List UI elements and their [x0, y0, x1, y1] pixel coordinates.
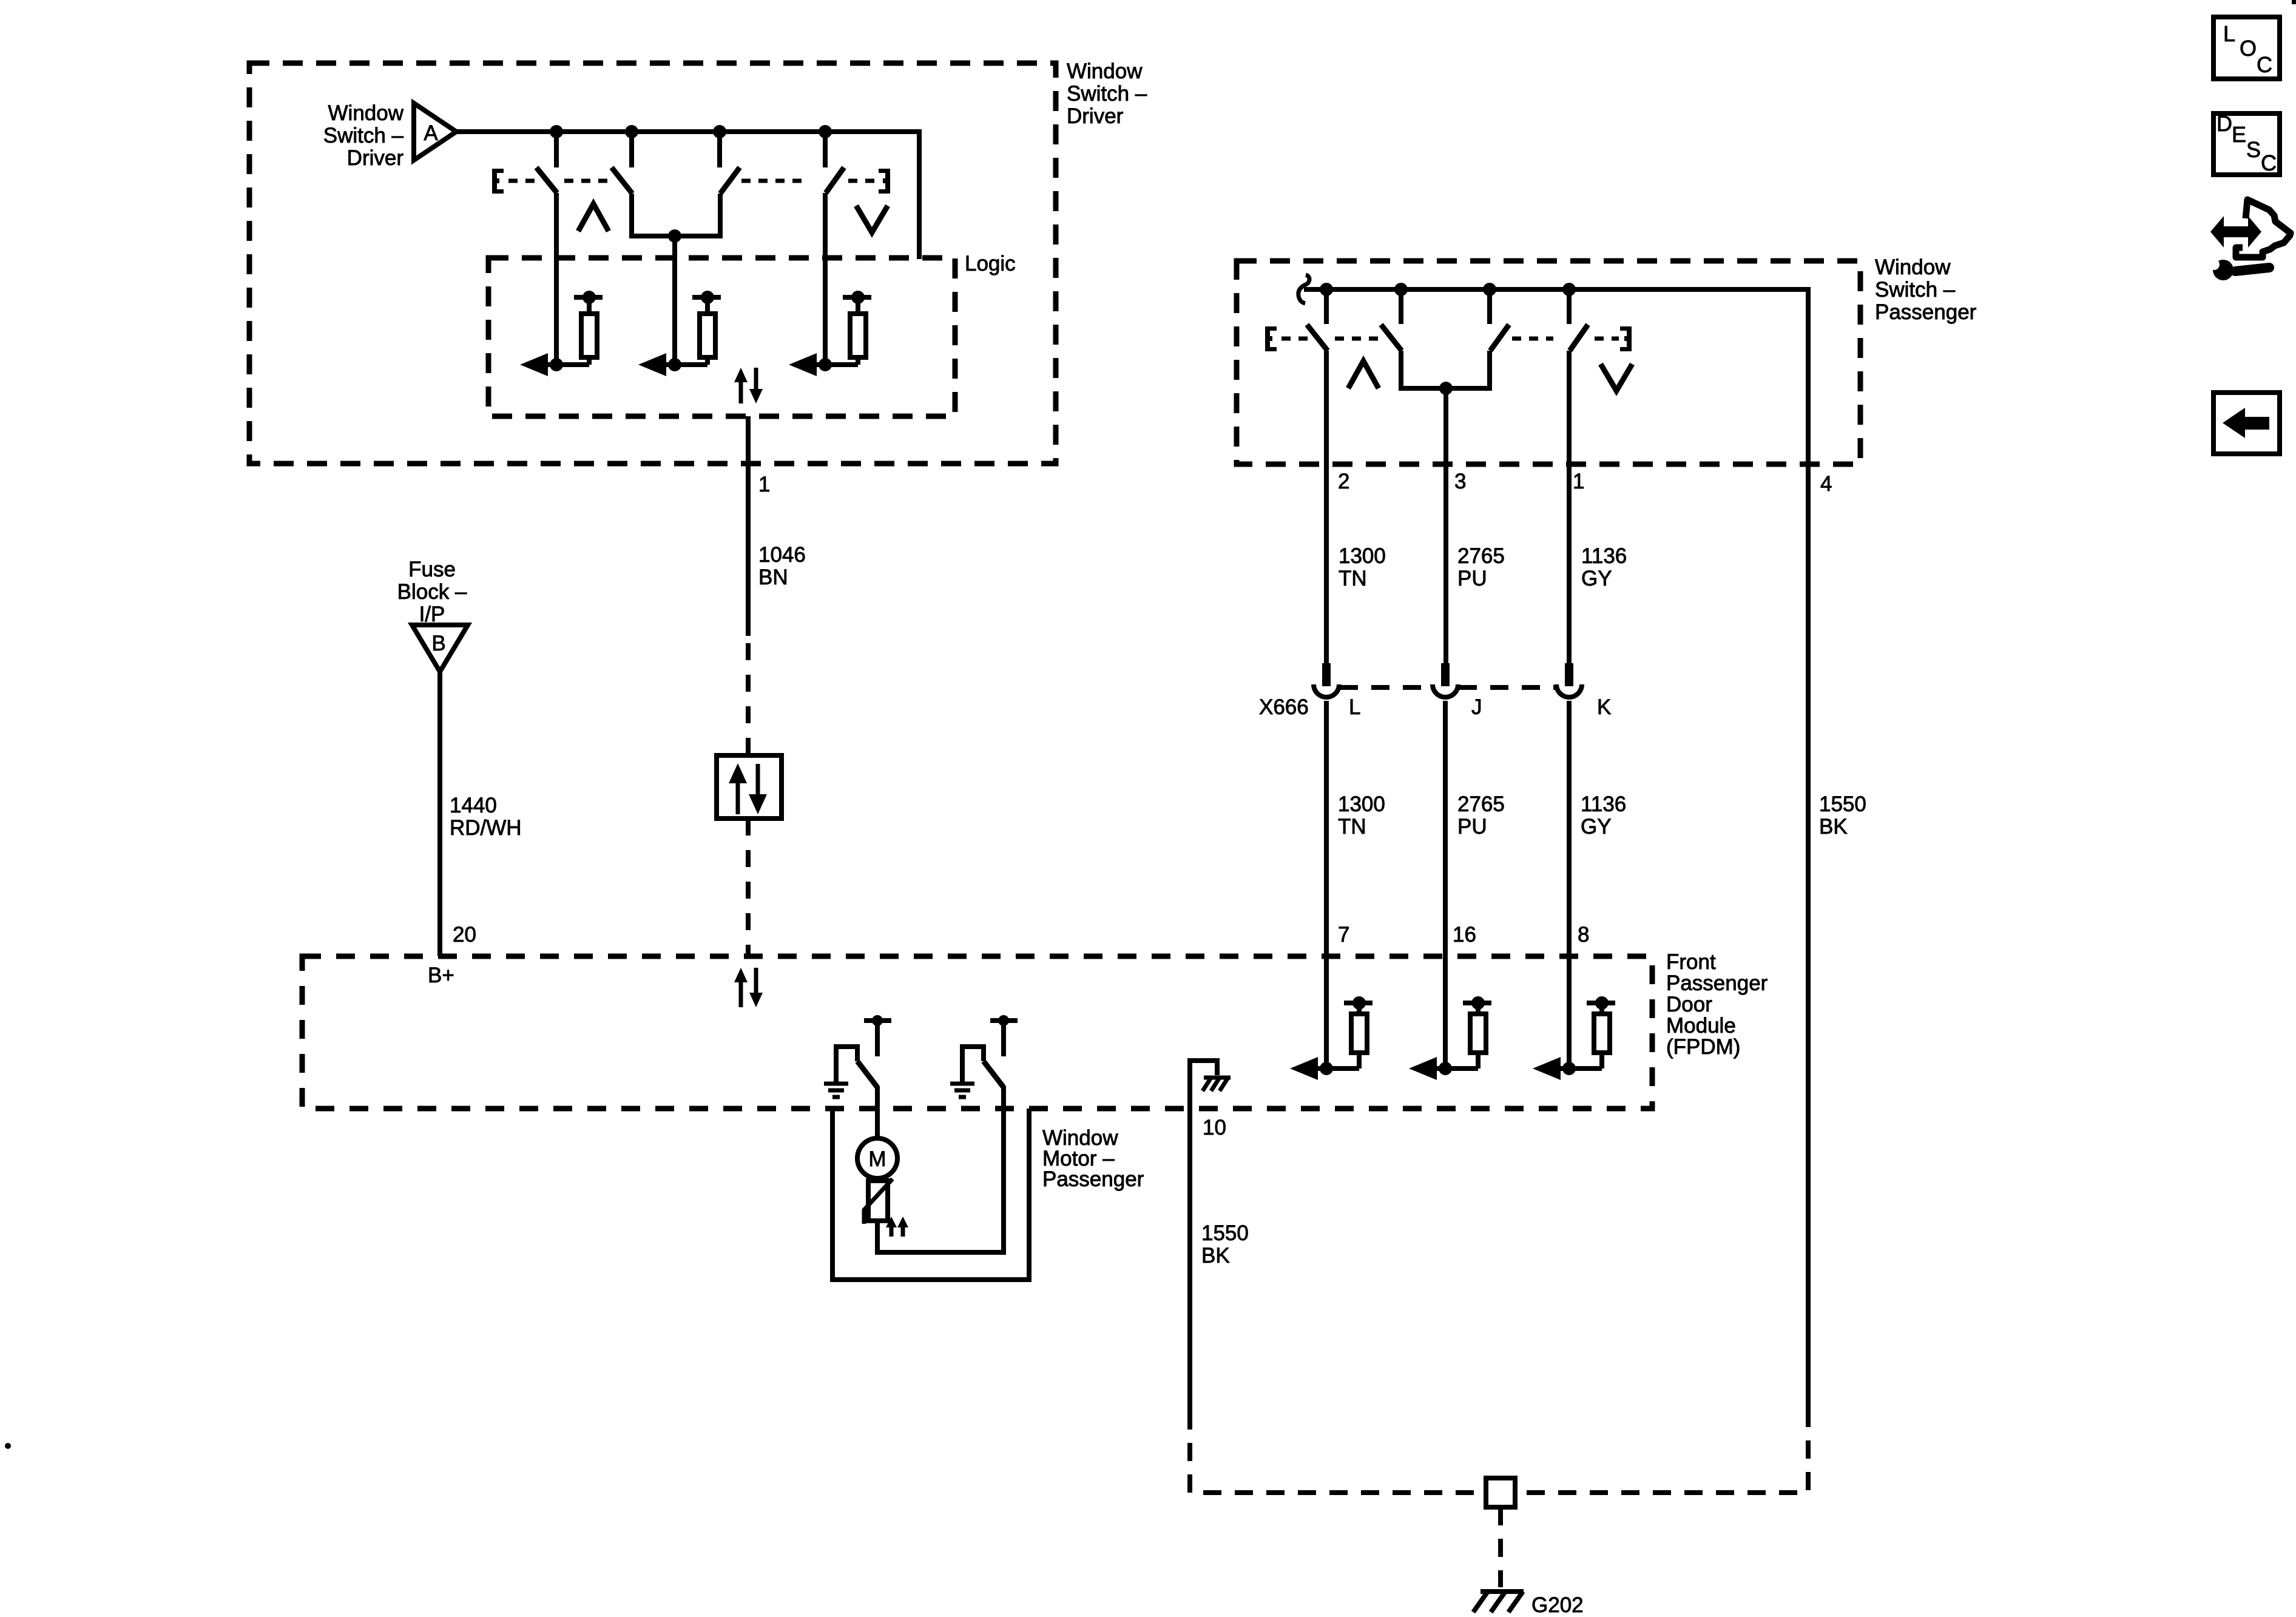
- junction node on bus (passenger switch 4): [1562, 283, 1576, 296]
- wire: passenger switch 4 to pin 1: [1567, 351, 1572, 663]
- wire: passenger switch feed bus: [1304, 289, 1808, 1409]
- junction node on bus (switch 3): [713, 125, 726, 138]
- svg-text:10: 10: [1203, 1116, 1226, 1139]
- svg-text:1550: 1550: [1819, 792, 1866, 816]
- svg-text:Passenger: Passenger: [1666, 971, 1768, 995]
- switch blade S2 (driver center-left): [612, 167, 632, 194]
- svg-text:3: 3: [1454, 470, 1466, 493]
- switch blade P2 (passenger center-left): [1381, 325, 1402, 351]
- circuit breaker (self-resetting, in motor): [864, 1179, 893, 1224]
- wire: switch 2/3 merged outputs: [629, 194, 723, 236]
- junction node: merged passenger center switches: [1439, 382, 1453, 395]
- svg-text:C: C: [2257, 52, 2272, 77]
- svg-text:RD/WH: RD/WH: [450, 816, 522, 840]
- pull-up resistor R6 with signal arrow (FPDM pin 8): [1533, 996, 1615, 1080]
- symbol: UP function (chevron): [578, 204, 609, 231]
- symbol: DOWN function (chevron): [856, 206, 888, 232]
- svg-text:Driver: Driver: [347, 146, 404, 170]
- wire stub to switch 4: [823, 132, 828, 167]
- wire stub to passenger switch 4: [1567, 289, 1572, 324]
- svg-text:D: D: [2217, 111, 2232, 136]
- motor M (Window Motor - Passenger): [857, 1138, 897, 1178]
- svg-text:2765: 2765: [1457, 792, 1505, 816]
- connector X666 dashed tie (J-K): [1459, 685, 1556, 690]
- svg-text:20: 20: [453, 923, 476, 947]
- svg-text:Passenger: Passenger: [1042, 1167, 1144, 1191]
- symbol: UP function (chevron, passenger): [1348, 361, 1379, 388]
- wire 1046 BN: off-page (dashed lower): [746, 819, 751, 956]
- svg-text:Switch –: Switch –: [323, 124, 404, 147]
- junction node on bus (passenger switch 3): [1483, 283, 1496, 296]
- svg-text:K: K: [1597, 695, 1611, 719]
- mechanical link dashed line (span 3): [741, 179, 807, 183]
- svg-text:B: B: [431, 632, 445, 655]
- pull-up resistor R2 with signal arrow (logic, center switches): [638, 291, 721, 376]
- svg-text:Fuse: Fuse: [408, 558, 456, 581]
- switch blade P4 (passenger, pin 1): [1570, 325, 1588, 351]
- junction node on bus (switch 2): [625, 125, 638, 138]
- svg-text:Passenger: Passenger: [1875, 300, 1977, 324]
- svg-text:Door: Door: [1666, 993, 1712, 1016]
- wire 1550 BK: off-page right (dashed): [1518, 1409, 1808, 1493]
- svg-text:Switch –: Switch –: [1067, 82, 1147, 106]
- mechanical link dashed line (right span): [848, 179, 877, 183]
- svg-text:1046: 1046: [758, 543, 806, 567]
- svg-text:Module: Module: [1666, 1014, 1736, 1038]
- svg-text:2: 2: [1338, 470, 1349, 493]
- junction node on bus (switch 4): [819, 125, 832, 138]
- symbol: bidirectional serial data arrows (logic output): [734, 368, 763, 403]
- symbol: DOWN function (chevron, passenger): [1601, 364, 1632, 391]
- symbol: double up arrows (circuit breaker): [886, 1217, 908, 1237]
- mechanical link dashed line (left span): [508, 179, 539, 183]
- wire stub to switch 3: [717, 132, 722, 167]
- svg-text:BK: BK: [1819, 815, 1848, 839]
- svg-text:GY: GY: [1581, 567, 1612, 590]
- wire: switch 4 output into logic: [823, 193, 828, 365]
- svg-text:1550: 1550: [1201, 1221, 1249, 1245]
- svg-text:O: O: [2240, 36, 2257, 61]
- svg-text:B+: B+: [428, 964, 454, 987]
- pull-up resistor R5 with signal arrow (FPDM pin 16): [1409, 996, 1491, 1080]
- svg-text:8: 8: [1578, 923, 1589, 947]
- icon box: DESC: [2213, 111, 2280, 175]
- svg-text:1: 1: [758, 473, 770, 496]
- mechanical link bracket ] (driver switches): [879, 169, 890, 194]
- wire: passenger center switches merged: [1399, 351, 1492, 388]
- wire 1550 BK: off-page left (dashed): [1190, 1411, 1484, 1493]
- svg-text:1300: 1300: [1338, 792, 1385, 816]
- wire: FPDM return from motor: [1001, 1086, 1006, 1255]
- wire: FPDM output to motor: [875, 1086, 880, 1138]
- svg-text:X666: X666: [1259, 695, 1309, 719]
- svg-text:7: 7: [1338, 923, 1349, 947]
- svg-text:L: L: [1349, 695, 1360, 719]
- ground G202 (chassis ground): [1473, 1592, 1524, 1612]
- icon box: back arrow: [2213, 393, 2280, 454]
- mechanical link bracket [ (driver switches): [492, 169, 504, 194]
- component box: Front Passenger Door Module FPDM (dashed outline): [302, 956, 1652, 1109]
- wire 1046 BN: off-page (dashed upper): [746, 643, 751, 755]
- svg-text:Front: Front: [1666, 950, 1716, 974]
- wire continuation curl (passenger bus origin): [1298, 275, 1309, 303]
- wire 1136 GY: X666 to FPDM pin 8: [1567, 701, 1572, 1068]
- splice S-box (1550 BK): [1486, 1478, 1515, 1507]
- svg-text:16: 16: [1453, 923, 1476, 947]
- svg-text:M: M: [868, 1147, 886, 1171]
- wire: merged output to pin 3: [1443, 388, 1448, 663]
- svg-text:S: S: [2246, 137, 2261, 162]
- svg-text:Driver: Driver: [1067, 104, 1124, 128]
- connector triangle B (Fuse Block - I/P): [412, 625, 468, 672]
- connector X666 cavity J (pin and socket): [1433, 663, 1458, 697]
- wire stub to switch 2: [629, 132, 634, 167]
- switch blade S1 (driver up, left): [536, 167, 557, 193]
- mechanical link dashed line (span 3): [1512, 337, 1553, 341]
- symbol: bidirectional serial data arrows (FPDM input): [734, 968, 763, 1007]
- wire stub to passenger switch 2: [1399, 289, 1403, 324]
- mechanical link dashed line (left span): [1281, 337, 1311, 341]
- svg-text:L: L: [2223, 21, 2235, 46]
- switch blade S3 (driver center-right): [720, 167, 740, 194]
- junction node on bus (passenger switch 1): [1320, 283, 1333, 296]
- svg-text:2765: 2765: [1457, 544, 1505, 568]
- switch blade P1 (passenger, pin 2): [1307, 325, 1328, 351]
- svg-text:1: 1: [1573, 470, 1584, 493]
- svg-text:E: E: [2232, 122, 2246, 147]
- svg-text:J: J: [1471, 695, 1482, 719]
- junction node: merged center switches: [668, 229, 681, 243]
- svg-text:PU: PU: [1457, 567, 1487, 590]
- wire: breaker to return switch: [877, 1221, 1004, 1252]
- wire stub to passenger switch 3: [1487, 289, 1492, 324]
- svg-text:Window: Window: [328, 101, 404, 125]
- component box: Logic (dashed outline): [488, 258, 955, 416]
- connector X666 cavity L (pin and socket): [1314, 663, 1339, 697]
- wire: motor to circuit breaker: [875, 1178, 880, 1188]
- svg-text:TN: TN: [1338, 815, 1366, 839]
- svg-text:GY: GY: [1581, 815, 1612, 839]
- svg-text:PU: PU: [1457, 815, 1487, 839]
- svg-text:1136: 1136: [1581, 544, 1627, 568]
- wire: merged output into logic: [672, 236, 677, 365]
- svg-text:TN: TN: [1339, 567, 1367, 590]
- pull-up resistor R1 with signal arrow (logic, switch 1): [520, 291, 603, 376]
- svg-text:Window: Window: [1875, 255, 1951, 279]
- switch blade S4 (driver down, right): [826, 167, 844, 193]
- svg-text:Block –: Block –: [397, 580, 467, 604]
- connector X666 cavity K (pin and socket): [1556, 663, 1582, 697]
- svg-text:1136: 1136: [1581, 792, 1626, 816]
- icon: harness routing (double arrow, outline, wrench): [2203, 200, 2291, 280]
- component box: Window Switch - Passenger (dashed outline): [1237, 261, 1860, 464]
- svg-text:1300: 1300: [1339, 544, 1386, 568]
- stray mark top-right: [2292, 0, 2296, 4]
- connector triangle A (in-line connector, Window Switch - Driver): [414, 103, 456, 160]
- svg-text:BK: BK: [1201, 1244, 1230, 1268]
- svg-text:C: C: [2261, 150, 2277, 175]
- mechanical link dashed line (span 2): [564, 179, 608, 183]
- wire: splice to ground G202 (dashed): [1498, 1507, 1503, 1587]
- ground symbol at FPDM pin 10 (internal): [1190, 1061, 1231, 1109]
- H-bridge output switch (FPDM, motor -) with ground: [950, 1015, 1018, 1097]
- svg-text:BN: BN: [758, 565, 788, 589]
- svg-text:Logic: Logic: [965, 252, 1016, 275]
- stray dot left margin: [5, 1443, 11, 1449]
- svg-text:4: 4: [1820, 472, 1832, 496]
- svg-text:Window: Window: [1067, 59, 1143, 83]
- mechanical link dashed line (span 2): [1335, 337, 1379, 341]
- mechanical link dashed line (right span): [1595, 337, 1619, 341]
- junction node on bus (switch 1): [550, 125, 563, 138]
- junction node on bus (passenger switch 2): [1394, 283, 1408, 296]
- wire 1550 BK: FPDM pin 10 (solid part): [1187, 1109, 1192, 1411]
- mechanical link bracket [ (passenger switches): [1265, 326, 1277, 351]
- svg-text:G202: G202: [1531, 1593, 1584, 1617]
- pull-up resistor R4 with signal arrow (FPDM pin 7): [1290, 996, 1373, 1080]
- svg-text:1440: 1440: [450, 794, 497, 817]
- component box: Window Switch - Driver (dashed outline): [249, 63, 1056, 464]
- wire: switch 1 output into logic: [554, 193, 559, 365]
- mechanical link bracket ] (passenger switches): [1620, 326, 1632, 351]
- pull-up resistor R3 with signal arrow (logic, switch 4): [789, 291, 871, 376]
- wire: passenger switch 1 to pin 2: [1324, 351, 1329, 663]
- wire 1046 BN: logic pin 1 (solid part): [746, 416, 751, 636]
- svg-text:A: A: [424, 121, 438, 145]
- connector X666 dashed tie (L-J): [1340, 685, 1432, 690]
- wire: switch feed bus from connector A: [456, 132, 919, 259]
- svg-text:Switch –: Switch –: [1875, 278, 1956, 302]
- symbol: serial data link (boxed up/down arrows): [717, 755, 782, 819]
- wire stub to passenger switch 1: [1324, 289, 1329, 324]
- wire 1440 RD/WH: fuse block to FPDM pin 20: [437, 672, 442, 956]
- switch blade P3 (passenger center-right): [1490, 325, 1509, 351]
- icon box: LOC: [2213, 17, 2280, 79]
- wire 1300 TN: X666 to FPDM pin 7: [1324, 701, 1329, 1068]
- component box: Window Motor - Passenger (solid outline): [832, 1109, 1029, 1280]
- H-bridge output switch (FPDM, motor +) with ground: [824, 1015, 891, 1097]
- svg-text:(FPDM): (FPDM): [1666, 1035, 1740, 1059]
- wire 2765 PU: X666 to FPDM pin 16: [1443, 701, 1448, 1068]
- wire stub to switch 1: [554, 132, 559, 167]
